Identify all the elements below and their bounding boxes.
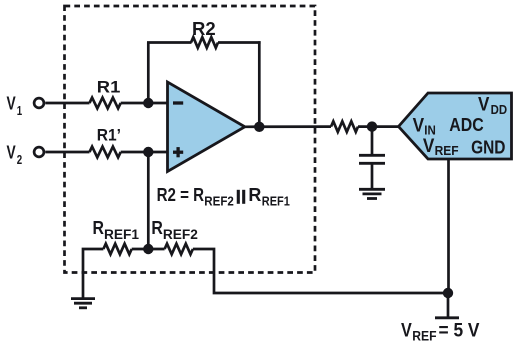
svg-text:GND: GND [471, 137, 505, 158]
svg-text:REF: REF [412, 329, 436, 344]
svg-text:R: R [93, 218, 105, 238]
svg-text:REF1: REF1 [262, 193, 290, 208]
svg-text:V: V [7, 143, 16, 163]
node VREF junction [443, 288, 453, 298]
label VREF = 5 V [401, 321, 480, 344]
capacitor C1 [359, 155, 385, 163]
svg-text:V: V [423, 136, 435, 157]
ground (left reference) [71, 299, 95, 308]
resistor R1 [90, 98, 121, 109]
wire non-inverting node to op-amp [148, 151, 167, 154]
wire RREF1 to center node [132, 248, 165, 251]
svg-text:V: V [413, 116, 425, 137]
wire inverting node to op-amp [148, 102, 167, 105]
op-amp U1 [168, 82, 245, 172]
label RREF1 [93, 218, 140, 242]
ADC U2 [399, 93, 512, 159]
svg-text:REF1: REF1 [104, 227, 139, 242]
node V2 input terminal [34, 147, 44, 157]
wire feedback right vertical [258, 41, 261, 127]
svg-text:1: 1 [17, 103, 22, 118]
node reference divider junction [143, 244, 153, 254]
wire left end of divider [83, 249, 103, 298]
resistor RREF1 [103, 244, 131, 255]
wire node to capacitor [371, 127, 374, 156]
svg-text:R: R [248, 185, 261, 205]
svg-text:R1’: R1’ [97, 125, 121, 144]
wire non-inverting node down to reference divider [147, 152, 150, 249]
wire feedback top left [147, 41, 192, 44]
svg-text:R: R [151, 218, 163, 238]
wire op-amp output [245, 125, 331, 128]
label RREF2 [151, 218, 198, 242]
label V1 [7, 94, 23, 118]
resistor RREF2 [165, 244, 193, 255]
node non-inverting input junction [143, 147, 153, 157]
resistor series filter R [331, 121, 358, 132]
wire VREF terminal stub [447, 293, 450, 317]
label V2 [7, 143, 23, 167]
resistor R2 [191, 37, 218, 48]
wire feedback top right [218, 41, 261, 44]
node output junction [254, 122, 264, 132]
op-amp non-inverting input marker + [173, 151, 183, 154]
resistor R1' [90, 147, 121, 158]
dashed boundary box [65, 6, 316, 273]
wire feedback left vertical [147, 43, 150, 104]
svg-text:R2 = R: R2 = R [157, 185, 205, 205]
wire V1 to R1 [45, 102, 89, 105]
ground (capacitor) [359, 189, 385, 198]
node filter junction [367, 121, 377, 131]
wire V2 to R1' [45, 151, 89, 154]
svg-text:REF: REF [435, 143, 459, 158]
wire R1' to non-inverting node [121, 151, 149, 154]
svg-text:= 5 V: = 5 V [439, 321, 480, 342]
wire ADC VREF pin down [447, 159, 450, 293]
svg-text:V: V [401, 321, 412, 342]
node V1 input terminal [34, 98, 44, 108]
svg-text:REF2: REF2 [163, 227, 198, 242]
svg-text:REF2: REF2 [204, 193, 234, 208]
svg-text:DD: DD [491, 102, 508, 117]
svg-text:R1: R1 [97, 77, 121, 96]
svg-text:2: 2 [17, 152, 22, 167]
wire filter R to ADC [358, 125, 400, 128]
node inverting input junction [143, 98, 153, 108]
svg-text:ADC: ADC [449, 114, 483, 135]
op-amp inverting input marker - [173, 101, 183, 104]
wire RREF2 right then down to reference rail [193, 249, 448, 293]
svg-text:R2: R2 [192, 19, 216, 39]
wire capacitor to ground [371, 163, 374, 189]
label equation R2 = RREF2 || RREF1 [157, 185, 290, 208]
svg-text:V: V [478, 95, 490, 116]
svg-text:V: V [7, 94, 16, 114]
wire R1 to inverting node [121, 102, 149, 105]
VREF supply terminal bar [435, 316, 459, 319]
